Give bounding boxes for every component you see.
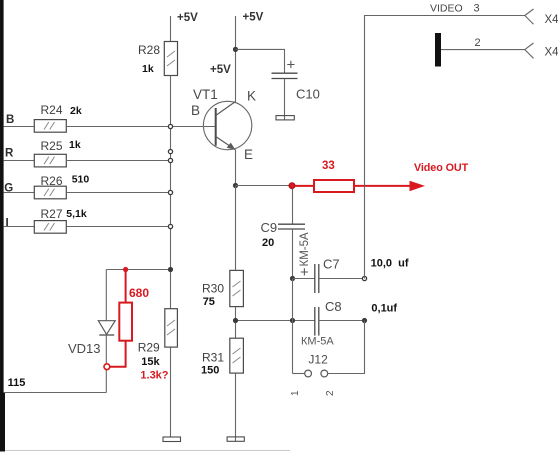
wire R30/R31 node to C8 [236,320,315,322]
wire emitter node to R30 [235,186,237,271]
connector X4 pin 3 [525,9,558,26]
svg-text:1: 1 [290,390,301,396]
wire to C7 [293,278,315,280]
node B/bus [168,124,172,128]
resistor R29 [138,309,178,382]
ground (bus) [163,437,181,442]
svg-text:VT1: VT1 [193,87,218,102]
wire R30 to node [235,307,237,339]
resistor R24 [34,103,82,132]
svg-text:B: B [191,103,200,118]
wire B to base [66,126,215,128]
svg-text:+5V: +5V [177,12,198,24]
node emitter [233,183,237,187]
wire to C10 [236,49,285,73]
capacitor C7 [300,257,409,294]
capacitor C10 [272,57,320,102]
node collector/C10 [233,47,237,51]
wire +5V to R28 [170,16,172,42]
wire C10 to ground [284,79,286,120]
svg-text:10,0 uf: 10,0 uf [371,258,409,270]
capacitor C9 [261,220,306,249]
svg-text:+: + [300,264,309,281]
ground (R31) [227,437,244,441]
capacitor C8 [315,299,398,336]
node R30/R31 [233,318,237,322]
transistor VT1 [191,87,256,162]
svg-text:K: K [247,89,256,104]
wire B input [4,126,35,128]
node rail/C8 [290,318,294,322]
svg-text:680: 680 [129,286,149,300]
svg-text:VIDEO: VIDEO [430,3,463,15]
svg-text:5,1k: 5,1k [66,208,87,220]
svg-text:15k: 15k [141,356,160,368]
node video (red) [289,183,295,189]
svg-text:E: E [244,147,253,162]
node branch/bus [168,267,172,271]
wire C9 to C7 node [292,229,294,279]
wire X4 pin 2 [441,49,525,51]
node 680 top (red) [123,267,128,272]
svg-text:R26: R26 [41,174,63,188]
wire R to bus [66,160,170,162]
node R/bus [168,158,172,162]
svg-text:2k: 2k [70,105,82,117]
ground (C10) [276,116,294,120]
wire emitter down [235,150,237,186]
wire VD13 branch top [106,269,170,271]
svg-text:C7: C7 [323,257,340,272]
wire I input [4,226,35,228]
svg-text:75: 75 [203,296,215,308]
svg-text:0,1uf: 0,1uf [371,303,397,315]
svg-text:J12: J12 [308,352,328,366]
svg-text:VD13: VD13 [68,341,101,356]
wire rail between C7 and C8 [292,279,294,374]
bottom faint page line [5,450,290,452]
svg-text:510: 510 [72,174,90,186]
svg-text:2: 2 [475,37,481,49]
svg-text:1k: 1k [69,139,81,151]
diode VD13 [68,321,115,356]
wire R31 to ground [235,374,237,442]
wire 115 line [4,392,107,394]
svg-text:R29: R29 [138,341,160,355]
svg-text:X4: X4 [545,14,558,26]
svg-text:R31: R31 [202,351,224,365]
wire down to diode [105,270,107,321]
Video OUT arrow (red) [354,162,469,191]
svg-text:КМ-5А: КМ-5А [299,232,311,267]
resistor R31 [201,338,243,376]
svg-text:R27: R27 [41,207,63,221]
svg-text:2: 2 [325,390,336,396]
wire C7 to right rail [319,278,365,280]
wire R input [4,160,35,162]
resistor R30 [202,270,243,308]
svg-text:Video OUT: Video OUT [414,162,469,174]
svg-text:КМ-5А: КМ-5А [301,336,334,348]
svg-text:R30: R30 [202,282,224,296]
connector X4 pin 2 [525,43,558,59]
connector J12 [290,321,365,397]
svg-text:1k: 1k [142,63,154,75]
via on bus [168,150,172,154]
resistor 680 (red) [119,270,149,341]
svg-text:I: I [6,218,9,230]
node G/bus [168,190,172,194]
wire G input [4,192,35,194]
resistor R28 [138,42,178,76]
svg-text:115: 115 [8,377,26,389]
svg-text:R: R [5,147,14,159]
wire bus below R29 to ground [170,347,172,437]
blocked pin bar [435,33,441,67]
node C8 right [362,318,366,322]
wire G to bus [66,192,170,194]
resistor R26 [34,174,89,199]
wire 680 bottom (red) [110,341,126,367]
node C7 right [362,276,366,280]
svg-text:C10: C10 [296,87,320,102]
node 680/diode (red ring) [104,364,110,370]
wire +5V collector rail [235,16,237,102]
svg-text:33: 33 [322,160,335,172]
resistor R25 [34,139,81,167]
svg-text:R25: R25 [41,139,63,153]
resistor 33 (red) [295,160,354,192]
wire bus vertical [170,76,172,309]
svg-text:150: 150 [201,365,219,377]
node C7 left [290,276,294,280]
svg-text:B: B [6,114,14,126]
wire diode to corner [105,335,107,393]
svg-text:X4: X4 [545,47,558,59]
svg-text:C8: C8 [325,299,342,314]
svg-text:3: 3 [474,3,480,15]
wire video node down to C9 [292,189,294,225]
svg-text:R28: R28 [138,43,160,57]
svg-text:+5V: +5V [243,12,264,24]
left border bar [0,0,4,452]
wire VIDEO rail [365,16,525,279]
svg-text:+5V: +5V [210,64,231,76]
resistor R27 [34,207,87,233]
node I/bus [168,224,172,228]
wire C8 to right rail [319,320,365,322]
svg-text:C9: C9 [261,220,278,235]
svg-text:+: + [287,57,296,74]
svg-text:1.3k?: 1.3k? [140,370,168,382]
wire I to bus [66,226,170,228]
wire emitter node to video node [236,185,290,187]
svg-text:R24: R24 [41,103,63,117]
svg-text:20: 20 [262,237,274,249]
